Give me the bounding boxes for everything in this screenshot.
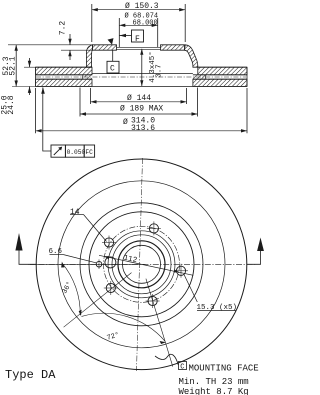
svg-text:MOUNTING FACE: MOUNTING FACE	[189, 364, 259, 374]
svg-text:6.6: 6.6	[49, 248, 63, 256]
svg-text:FC: FC	[85, 149, 93, 156]
svg-text:14: 14	[70, 208, 80, 217]
svg-text:C: C	[110, 65, 115, 74]
svg-text:Ø 150.3: Ø 150.3	[125, 2, 159, 11]
svg-text:Ø 189 MAX: Ø 189 MAX	[120, 105, 163, 114]
svg-text:Min. TH 23 mm: Min. TH 23 mm	[179, 377, 249, 387]
svg-text:Weight 8.7 Kg: Weight 8.7 Kg	[179, 387, 249, 395]
svg-text:3.7: 3.7	[156, 64, 164, 78]
svg-text:Type DA: Type DA	[5, 368, 56, 382]
svg-text:313.6: 313.6	[131, 124, 155, 133]
svg-text:Ø 144: Ø 144	[127, 94, 151, 103]
svg-text:15.3 (x5): 15.3 (x5)	[197, 304, 238, 312]
svg-text:24.8: 24.8	[7, 95, 16, 114]
svg-text:68.000: 68.000	[133, 20, 158, 28]
svg-text:0.050: 0.050	[67, 149, 86, 156]
svg-text:52.1: 52.1	[9, 56, 18, 75]
svg-text:7.2: 7.2	[59, 21, 68, 36]
svg-text:F: F	[135, 35, 140, 44]
svg-text:C: C	[180, 364, 184, 372]
svg-text:Ø: Ø	[123, 118, 128, 127]
